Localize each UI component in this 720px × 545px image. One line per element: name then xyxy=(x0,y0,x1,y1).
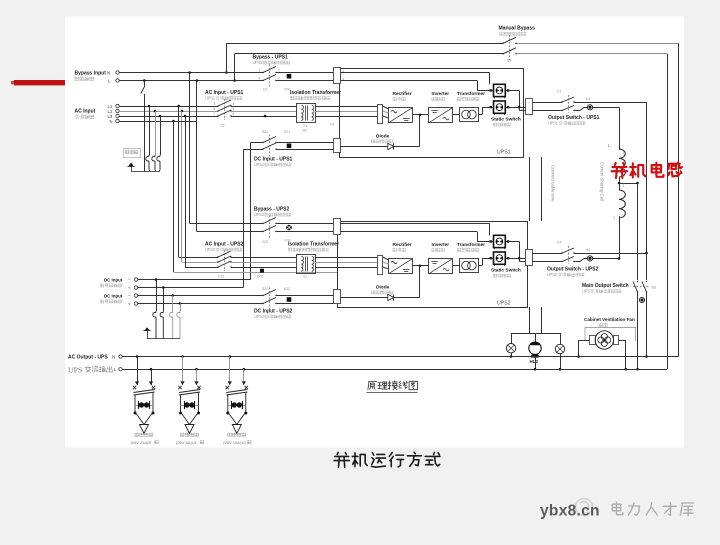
svg-text:N: N xyxy=(110,119,113,124)
ground (battery) xyxy=(144,327,149,331)
svg-text:T1: T1 xyxy=(303,124,307,128)
svg-text:2: 2 xyxy=(259,69,261,73)
svg-text:3W: 3W xyxy=(302,129,307,133)
svg-text:S: S xyxy=(587,289,590,294)
terminal block UPS2 output xyxy=(526,250,533,266)
fuse F02 xyxy=(286,225,292,231)
lamp branch 1 xyxy=(140,425,149,434)
wire UPS2 N join main riser xyxy=(574,253,647,255)
lamp HL3 xyxy=(560,333,562,344)
svg-text:AC Output - UPS: AC Output - UPS xyxy=(68,355,108,361)
svg-text:Isolation Transformer: Isolation Transformer xyxy=(290,90,341,96)
static switch SCR pair (inverter) UPS2 xyxy=(494,252,506,264)
svg-text:K21: K21 xyxy=(284,130,290,134)
contactor branch 1 xyxy=(135,405,153,407)
svg-text:T2: T2 xyxy=(303,275,307,279)
fuse F22 xyxy=(287,297,292,302)
slide title 并机运行方式 xyxy=(334,452,349,467)
svg-text:UPS: UPS xyxy=(68,366,82,375)
svg-text:6: 6 xyxy=(233,107,235,111)
svg-text:3: 3 xyxy=(214,102,216,106)
svg-text:N: N xyxy=(107,70,110,75)
contactor branch 2 xyxy=(181,405,199,407)
wire AC L3 tap to UPS2 xyxy=(184,115,187,118)
lamp branch 2 xyxy=(185,425,194,434)
svg-text:C3: C3 xyxy=(220,124,224,128)
wire AC switch to transformer T1 xyxy=(231,106,296,108)
switch C2 Output Switch-UPS2 xyxy=(562,248,574,253)
svg-text:−: − xyxy=(128,294,131,299)
switch C02 Bypass-UPS2 xyxy=(263,218,276,224)
svg-text:Cabinet Ventilation Fan: Cabinet Ventilation Fan xyxy=(584,317,635,322)
wire DC to UPS1 terminal xyxy=(276,142,334,144)
wire output L bus xyxy=(122,369,667,371)
wire AC L1 xyxy=(119,106,218,108)
wire T2 to UPS2 xyxy=(315,257,378,259)
svg-text:Current Sharing Coil: Current Sharing Coil xyxy=(600,162,605,201)
wire AC L1 tap to UPS2 xyxy=(177,105,180,108)
svg-text:Rectifier: Rectifier xyxy=(393,242,412,248)
wire rectifier-inverter link UPS2 xyxy=(413,265,429,267)
svg-text:S22: S22 xyxy=(262,287,268,291)
svg-text:Diode: Diode xyxy=(376,285,390,291)
svg-text:Transformer: Transformer xyxy=(457,91,485,97)
load branch switch Q1 xyxy=(136,355,139,358)
wire DC2 to UPS2 terminal xyxy=(276,295,334,297)
wire DC2+ xyxy=(138,303,263,305)
wire fan to N bus xyxy=(579,340,590,342)
wire comm lines to lamps xyxy=(529,307,531,333)
surge arrester taps xyxy=(148,105,151,108)
svg-text:N: N xyxy=(112,354,115,359)
terminal block UPS1 bypass in xyxy=(334,68,341,84)
wire bypass N bus xyxy=(119,72,263,74)
svg-text:3: 3 xyxy=(613,216,615,220)
svg-text:(05V 6A)15: (05V 6A)15 xyxy=(176,440,197,445)
transformer T1 isolation xyxy=(297,104,316,123)
svg-text:K22: K22 xyxy=(284,287,290,291)
svg-text:C1: C1 xyxy=(557,90,561,94)
svg-text:C4: C4 xyxy=(557,241,561,245)
svg-text:UPS1: UPS1 xyxy=(497,150,511,156)
fuse F21 xyxy=(287,144,292,149)
wire riser from bypass L to manual bypass xyxy=(234,54,236,81)
switch C1 Output Switch-UPS1 xyxy=(562,97,574,102)
switch C22 AC Input-UPS2 xyxy=(218,251,231,257)
svg-text:+: + xyxy=(128,286,131,291)
svg-text:2: 2 xyxy=(623,184,625,188)
svg-text:4: 4 xyxy=(233,102,235,106)
terminal block UPS1 output xyxy=(526,99,533,115)
svg-text:C4: C4 xyxy=(330,123,334,127)
UPS2 enclosure xyxy=(338,222,528,308)
UPS1 enclosure xyxy=(340,69,524,158)
switch C3 AC Input-UPS1 (3-pole) xyxy=(218,100,231,106)
wire bypass to UPS1 terminals xyxy=(276,72,334,74)
svg-text:8: 8 xyxy=(233,112,235,116)
svg-text:ybx8.cn: ybx8.cn xyxy=(540,503,600,520)
wire transformer to static switch xyxy=(478,114,482,116)
svg-text:7: 7 xyxy=(214,112,216,116)
wire UPS1 output N xyxy=(532,102,562,104)
wire AC N tap down xyxy=(196,121,198,123)
wire UPS1 N to main riser xyxy=(574,102,647,104)
wire T1 to UPS1 AC terminals xyxy=(315,106,378,108)
wire UPS2 output N xyxy=(532,253,562,255)
static switch SCR pair (inverter) UPS1 xyxy=(494,101,506,113)
svg-text:3: 3 xyxy=(278,77,280,81)
static switch SCR pair (bypass) UPS1 xyxy=(494,84,506,96)
wire fan to L bus xyxy=(619,340,626,342)
svg-text:5: 5 xyxy=(214,107,216,111)
wire bypass L arrester drop xyxy=(143,79,146,82)
wire manual bypass L right vertical xyxy=(667,54,669,369)
wire AC L2 tap to UPS2 xyxy=(181,110,184,113)
surge arrester fuses xyxy=(146,155,149,170)
svg-text:DC Input: DC Input xyxy=(104,277,123,282)
svg-text:+: + xyxy=(128,302,131,307)
contactor branch 3 xyxy=(228,405,246,407)
switch S22 DC Input-UPS2 xyxy=(263,290,276,296)
svg-text:C22: C22 xyxy=(218,275,224,279)
wire coil bottom to UPS2 L xyxy=(619,216,621,259)
svg-text:C0: C0 xyxy=(263,88,267,92)
wire rectifier-inverter link xyxy=(413,114,429,116)
wire lamp feeder xyxy=(511,333,560,335)
switch S21 DC Input-UPS1 xyxy=(251,142,263,144)
wire communication lines UPS1-UPS2 xyxy=(529,157,531,221)
battery fuses xyxy=(153,311,156,339)
svg-text:−: − xyxy=(128,278,131,283)
wire inverter to transformer xyxy=(453,114,460,116)
wire bypass N inside UPS1 xyxy=(340,72,490,74)
lamp branch 3 xyxy=(232,425,241,434)
svg-text:Rectifier: Rectifier xyxy=(393,91,412,97)
svg-text:1: 1 xyxy=(623,151,625,155)
wire UPS2 output L xyxy=(532,261,562,263)
wire DC1 risers to UPS1 xyxy=(250,143,252,280)
wire static switch outputs join xyxy=(508,90,519,92)
svg-text:AC Input: AC Input xyxy=(75,109,96,115)
svg-text:Bypass Input: Bypass Input xyxy=(75,71,107,77)
static switch SCR pair (bypass) UPS2 xyxy=(494,235,506,247)
svg-text:K4: K4 xyxy=(586,248,590,252)
wire output N bus xyxy=(122,356,678,358)
svg-text:Manual Bypass: Manual Bypass xyxy=(499,26,536,32)
wire AC bar to rectifier xyxy=(383,106,389,109)
wire main N to bus xyxy=(646,292,648,357)
wire DC1+ xyxy=(138,287,244,289)
wire bypass L tap to UPS2 xyxy=(196,79,199,82)
wire main L to bus xyxy=(637,292,639,369)
transformer T2 isolation xyxy=(297,255,316,274)
terminal block UPS1 AC in xyxy=(378,105,383,124)
svg-text:HL2: HL2 xyxy=(530,359,539,364)
terminal block UPS1 DC in xyxy=(334,139,341,153)
svg-text:Connect cable wire: Connect cable wire xyxy=(551,165,556,202)
watermark logo xyxy=(576,499,593,516)
contactor K4 xyxy=(574,261,580,263)
wire transformer to static switch UPS2 xyxy=(478,265,482,267)
wire bypass N inside UPS2 xyxy=(340,223,490,225)
red accent bar xyxy=(14,80,65,85)
svg-text:S1: S1 xyxy=(507,59,511,63)
wire AC2 to transformer T2 xyxy=(231,257,296,259)
svg-text:Static Switch: Static Switch xyxy=(491,117,521,123)
load branch switch Q3 xyxy=(229,355,232,358)
label branch 2 xyxy=(180,433,184,436)
wire DC2- xyxy=(138,295,263,297)
wire bypass L inside UPS1 xyxy=(340,80,477,82)
load branch switch Q2 xyxy=(181,355,184,358)
label branch 1 xyxy=(135,433,139,436)
wire riser from bypass N to manual bypass xyxy=(226,43,228,72)
wire manual bypass N top xyxy=(226,43,503,45)
surge arrester label 避雷器 xyxy=(124,149,141,158)
svg-text:S21: S21 xyxy=(262,130,268,134)
lamp HL1 xyxy=(511,333,513,344)
svg-text:UPS2: UPS2 xyxy=(497,301,511,307)
label branch 3 xyxy=(228,433,232,436)
svg-text:Transformer: Transformer xyxy=(457,242,485,248)
svg-text:S3: S3 xyxy=(652,286,656,290)
svg-text:1: 1 xyxy=(278,69,280,73)
wire UPS2 L to coil bottom junction xyxy=(593,258,619,260)
svg-text:C02: C02 xyxy=(262,240,268,244)
wire DC1- xyxy=(138,279,251,281)
wire manual bypass N right vertical xyxy=(678,43,680,356)
wire static switch outputs join UPS2 xyxy=(508,241,519,243)
lamp HL2 xyxy=(535,333,537,342)
wire AC L3 xyxy=(119,116,218,118)
contactor K5 main xyxy=(639,297,644,302)
wire centre tap riser to main switch xyxy=(637,183,639,280)
wire bypass2 to UPS2 terminal xyxy=(276,223,334,225)
svg-text:Isolation Transformer: Isolation Transformer xyxy=(288,242,339,248)
wire UPS1 output L xyxy=(532,110,562,112)
contactor K1 xyxy=(574,110,580,112)
switch CB0 Bypass-UPS1 xyxy=(263,67,276,73)
wire UPS1 L to coil top xyxy=(593,107,619,109)
wire AC L2 xyxy=(119,111,218,113)
label 原理接线图 schematic title xyxy=(368,382,377,390)
terminal block UPS2 AC in xyxy=(378,256,383,275)
wire bypass L bus xyxy=(119,80,263,82)
wire bypass L inside UPS2 xyxy=(340,231,477,233)
battery fuse taps xyxy=(155,278,158,281)
svg-text:Inverter: Inverter xyxy=(432,242,450,248)
svg-text:Diode: Diode xyxy=(376,134,390,140)
fuse F00 xyxy=(287,74,292,79)
red label 并机电感 xyxy=(612,163,627,178)
switch S1 Manual Bypass xyxy=(503,37,516,43)
svg-text:(05V 25A)5: (05V 25A)5 xyxy=(131,440,152,445)
svg-text:Static Switch: Static Switch xyxy=(491,268,521,274)
svg-text:Inverter: Inverter xyxy=(432,91,450,97)
terminal block UPS2 bypass in xyxy=(334,219,341,235)
svg-text:K1: K1 xyxy=(586,97,590,101)
wire AC N xyxy=(119,121,196,123)
svg-text:DC Input: DC Input xyxy=(104,293,123,298)
svg-text:D02: D02 xyxy=(257,275,263,279)
svg-text:4: 4 xyxy=(259,77,261,81)
svg-text:(05V 10A)10: (05V 10A)10 xyxy=(223,440,246,445)
terminal block UPS2 DC in xyxy=(334,290,341,304)
ground (arrester) xyxy=(128,163,133,167)
wire coil centre tap xyxy=(618,182,621,185)
wire bypass N tap to UPS2 xyxy=(188,71,191,74)
wire manual bypass L top xyxy=(235,53,503,55)
